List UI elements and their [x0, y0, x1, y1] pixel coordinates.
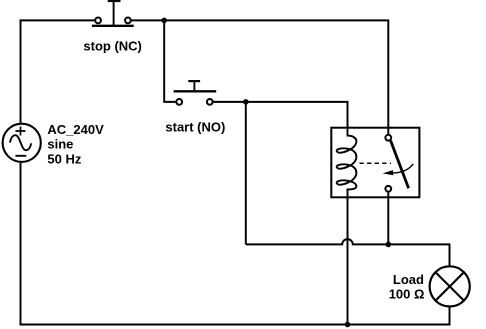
- pushbutton stop (NC): plunger stem: [113, 1, 115, 26]
- wire: top rail left segment (source to stop button): [21, 20, 95, 122]
- wire: start button feed (down from top rail): [164, 20, 175, 102]
- relay K1 actuation arrow curve: [392, 164, 413, 173]
- svg-text:sine: sine: [47, 137, 73, 152]
- wire: top rail right segment (stop button to relay switch): [132, 20, 389, 133]
- pushbutton stop (NC): contact bar: [92, 25, 134, 27]
- pushbutton start (NO): plunger cap: [188, 80, 200, 82]
- node: junction dot at start output / latch branch: [243, 99, 249, 105]
- svg-text:stop (NC): stop (NC): [83, 38, 141, 53]
- AC source V1 plus sign: [16, 127, 26, 136]
- relay K1 linkage dashed line: [360, 162, 392, 164]
- node: junction dot at top rail / start branch: [161, 18, 167, 24]
- relay K1 actuation arrow head: [383, 170, 394, 175]
- wire: bottom rail and left return to source: [21, 163, 450, 325]
- AC source V1 sine wave: [10, 135, 31, 150]
- wire: coil bottom to bottom rail: [347, 197, 349, 325]
- wire: relay switch NO contact down to mid rail: [387, 193, 389, 245]
- pushbutton stop (NC): right terminal circle: [125, 18, 131, 24]
- svg-text:100 Ω: 100 Ω: [389, 287, 425, 302]
- relay K1 switch blade: [391, 141, 409, 189]
- svg-text:start (NO): start (NO): [165, 120, 225, 135]
- AC source V1 circle: [3, 124, 41, 162]
- svg-text:Load: Load: [393, 272, 424, 287]
- relay K1 outline box: [331, 128, 419, 198]
- relay K1 coil: [337, 128, 357, 197]
- pushbutton start (NO): contact bar: [174, 90, 217, 92]
- pushbutton start (NO): left terminal circle: [176, 99, 182, 105]
- node: junction dot at bottom rail / coil return: [345, 322, 351, 328]
- wire: mid rail with hop over coil wire: [246, 239, 450, 266]
- pushbutton stop (NC): left terminal circle: [95, 18, 101, 24]
- wire: latch branch vertical (start output down to mid rail): [245, 102, 247, 245]
- pushbutton stop (NC): plunger cap: [108, 0, 121, 2]
- AC source V1 minus sign: [15, 155, 26, 157]
- pushbutton start (NO): right terminal circle: [207, 99, 213, 105]
- lamp load X cross: [436, 272, 464, 300]
- pushbutton start (NO): plunger stem: [193, 81, 195, 91]
- node: junction dot at mid rail / switch NO contact: [386, 242, 392, 248]
- relay K1 switch NO terminal: [385, 186, 391, 192]
- svg-text:AC_240V: AC_240V: [47, 122, 104, 137]
- svg-text:50 Hz: 50 Hz: [47, 151, 81, 166]
- wire: start button output to coil top: [214, 102, 348, 128]
- lamp load circle: [430, 266, 470, 306]
- relay K1 switch common terminal: [385, 135, 391, 141]
